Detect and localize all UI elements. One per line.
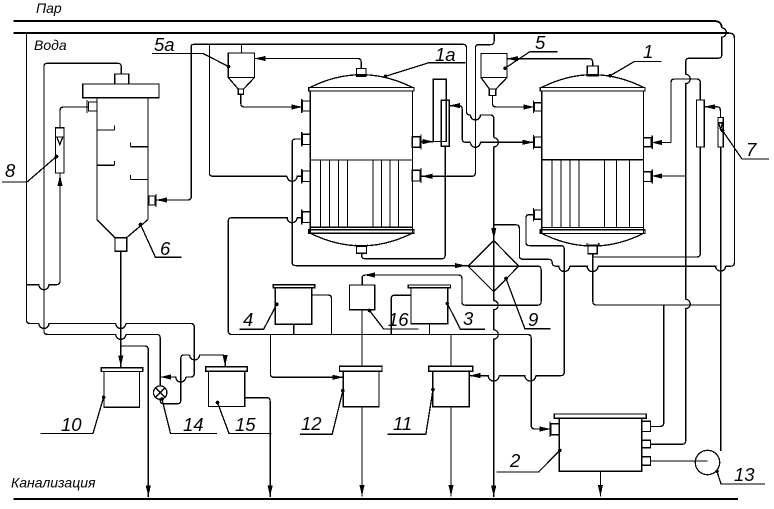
svg-text:14: 14 (183, 414, 204, 435)
svg-text:1: 1 (643, 41, 653, 62)
svg-text:5: 5 (535, 32, 546, 53)
svg-text:8: 8 (5, 160, 16, 181)
svg-text:9: 9 (528, 309, 538, 330)
svg-text:2: 2 (509, 450, 521, 471)
svg-text:16: 16 (388, 309, 409, 330)
svg-text:7: 7 (746, 139, 757, 160)
svg-text:12: 12 (301, 413, 322, 434)
svg-text:13: 13 (734, 464, 755, 485)
svg-text:3: 3 (463, 308, 474, 329)
svg-text:Канализация: Канализация (11, 475, 96, 491)
svg-text:10: 10 (61, 414, 82, 435)
svg-text:6: 6 (160, 238, 171, 259)
svg-text:Вода: Вода (34, 37, 67, 53)
svg-text:4: 4 (243, 309, 253, 330)
svg-text:Пар: Пар (36, 0, 62, 16)
svg-text:15: 15 (235, 414, 256, 435)
svg-text:5а: 5а (154, 34, 175, 55)
svg-text:1а: 1а (435, 44, 456, 65)
svg-text:11: 11 (393, 413, 412, 434)
